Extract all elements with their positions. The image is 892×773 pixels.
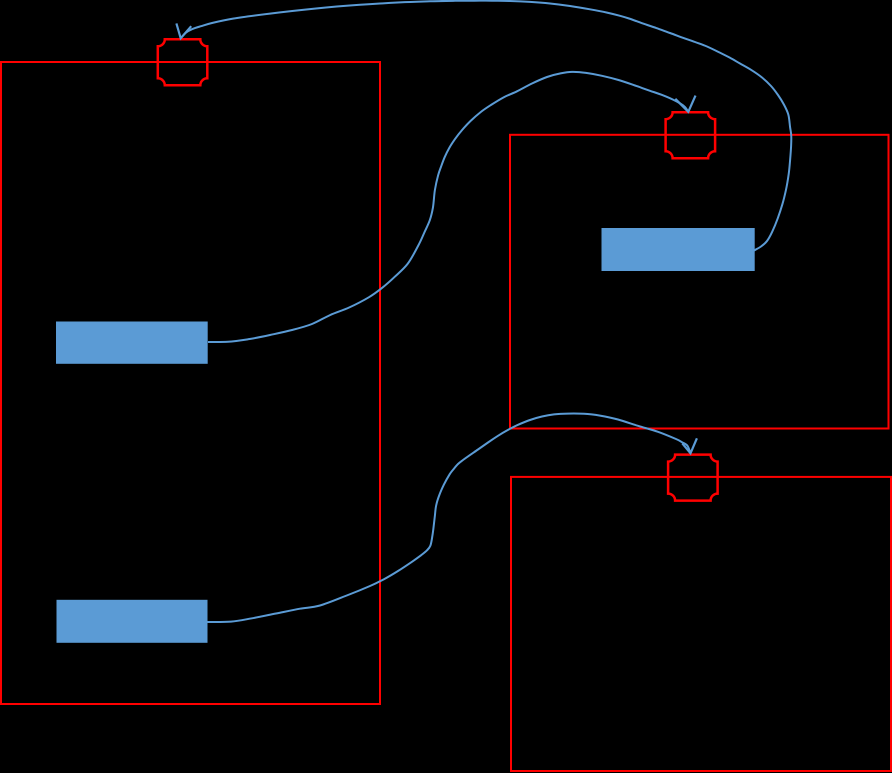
plaque anchor P2 (top of top-right box)	[666, 112, 716, 158]
arrowhead A at P1	[176, 23, 191, 38]
connector curve B: B1 to P2	[208, 72, 688, 342]
connector curve A: B3 to P1	[181, 1, 792, 251]
blue bar B3 (top-right box)	[602, 228, 755, 271]
arrowhead C at P3	[682, 438, 697, 453]
connector curve C: B2 to P3	[208, 414, 691, 622]
left red box	[1, 62, 380, 704]
plaque anchor P1 (top of left box)	[158, 39, 208, 85]
plaque anchor P3 (top of bottom-right box)	[668, 455, 718, 501]
bottom-right red box	[511, 477, 891, 771]
top-right red box	[510, 135, 889, 429]
arrowhead B at P2	[675, 96, 695, 112]
blue bar B1 (left box upper)	[56, 322, 208, 364]
blue bar B2 (left box lower)	[57, 600, 208, 643]
